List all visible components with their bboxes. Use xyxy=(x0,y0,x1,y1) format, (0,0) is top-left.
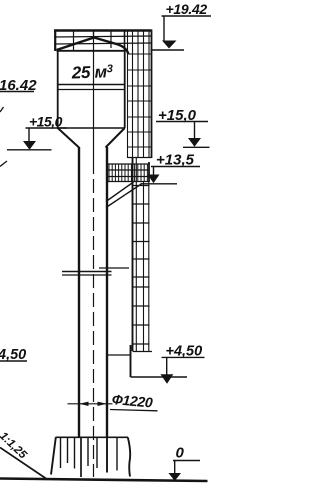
marker right +15.0 underline xyxy=(156,121,208,123)
ladder rail left lower xyxy=(132,158,134,352)
edge tick y163 xyxy=(0,161,7,167)
center axis solid upper xyxy=(93,38,95,160)
marker 0 underline xyxy=(173,460,200,462)
ladder right edge upper xyxy=(151,30,153,159)
marker +13.5 underline xyxy=(151,166,200,168)
foundation left outline xyxy=(51,437,56,474)
marker +19.42 underline xyxy=(162,15,212,17)
svg-text:0: 0 xyxy=(176,445,185,462)
shaft left edge xyxy=(78,147,80,437)
svg-text:4,50: 4,50 xyxy=(0,347,26,363)
marker left +15.0 triangle xyxy=(23,141,36,150)
marker +13.5 level line xyxy=(141,183,178,185)
ladder rungs upper xyxy=(128,54,152,147)
platform grid horizontals xyxy=(107,164,149,182)
svg-text:+13,5: +13,5 xyxy=(156,152,195,169)
center axis dashed xyxy=(93,160,95,477)
svg-text:+19.42: +19.42 xyxy=(166,1,208,17)
phi1220 underline xyxy=(110,410,158,411)
tank bottom cone right xyxy=(106,128,125,148)
landing level line xyxy=(131,376,188,378)
marker left +15.0 level line xyxy=(7,149,52,151)
marker +19.42 level line xyxy=(151,49,185,51)
marker 0 drop xyxy=(174,461,176,474)
ladder cage bottom xyxy=(133,351,153,353)
railing post 2 xyxy=(73,30,75,50)
foundation right outline xyxy=(128,437,130,476)
railing lower rail xyxy=(54,43,152,44)
marker right +15.0 level line xyxy=(183,146,210,148)
ladder cage verticals lower xyxy=(136,158,149,352)
ladder cage bottom line xyxy=(128,157,152,159)
dimension arrow right xyxy=(98,402,107,406)
tank bottom cone left xyxy=(58,128,79,148)
platform grid hatch xyxy=(109,164,147,182)
label 4.50 underline xyxy=(0,360,27,362)
slope line 1:1.25 xyxy=(0,448,46,479)
marker 0 triangle xyxy=(169,473,182,481)
ladder rungs lower xyxy=(132,186,150,345)
platform brace 1 xyxy=(106,182,134,202)
tank seam line 1 xyxy=(58,84,125,86)
railing mid rail xyxy=(54,36,152,37)
tank conical roof xyxy=(57,38,129,55)
svg-text:16.42: 16.42 xyxy=(0,77,37,94)
foundation pile 5 xyxy=(87,437,89,466)
tank left wall xyxy=(57,50,59,128)
tank seam line 2 xyxy=(58,89,125,91)
marker right +15.0 drop xyxy=(194,122,196,139)
ladder stringer to landing xyxy=(130,345,132,377)
foundation pile 8 xyxy=(116,437,118,470)
platform brace 2 xyxy=(106,184,142,208)
foundation pile 6 xyxy=(96,437,98,468)
svg-text:Ф1220: Ф1220 xyxy=(111,391,153,411)
label 16.42 underline xyxy=(0,91,34,93)
railing post center xyxy=(93,30,95,39)
shaft flange line 1 xyxy=(62,271,112,273)
platform right edge xyxy=(148,162,150,182)
marker left +15.0 leader xyxy=(26,127,68,129)
marker +4.50 drop xyxy=(166,357,168,374)
dimension line phi1220 xyxy=(68,403,113,405)
tank top rim xyxy=(57,50,126,52)
marker right +15.0 triangle xyxy=(188,138,201,147)
marker +13.5 drop xyxy=(153,167,155,176)
marker +4.50 underline xyxy=(162,356,205,358)
marker +19.42 drop xyxy=(163,16,165,41)
dimension arrow left xyxy=(79,402,88,406)
ladder cage verticals upper xyxy=(128,30,150,159)
shaft right edge xyxy=(106,147,108,437)
foundation ledge xyxy=(56,436,129,438)
marker +19.42 triangle xyxy=(162,41,177,49)
railing top rail xyxy=(54,29,152,31)
railing post 4 xyxy=(110,30,112,48)
tank bottom line xyxy=(57,127,125,129)
foundation pile 1 xyxy=(60,437,62,468)
marker +4.50 triangle xyxy=(161,374,174,384)
svg-text:+15,0: +15,0 xyxy=(29,114,63,130)
marker +13.5 triangle xyxy=(148,175,160,184)
railing post right xyxy=(124,30,126,50)
svg-text:+4,50: +4,50 xyxy=(166,344,203,360)
svg-text:+15,0: +15,0 xyxy=(158,107,197,124)
svg-text:25 м3: 25 м3 xyxy=(70,62,113,82)
shaft flange line 2 xyxy=(62,274,112,276)
foundation pile 7 xyxy=(106,437,108,472)
railing post left xyxy=(54,30,56,52)
marker left +15.0 drop xyxy=(28,128,30,142)
ground line xyxy=(0,479,208,482)
flange tie to ladder xyxy=(99,267,129,269)
foundation pile 3 xyxy=(74,437,76,468)
foundation pile 2 xyxy=(67,437,69,463)
edge tick y110 xyxy=(0,107,4,112)
foundation pile 4 xyxy=(80,437,82,477)
tank right wall xyxy=(124,50,126,128)
landing tie to shaft xyxy=(107,354,131,356)
